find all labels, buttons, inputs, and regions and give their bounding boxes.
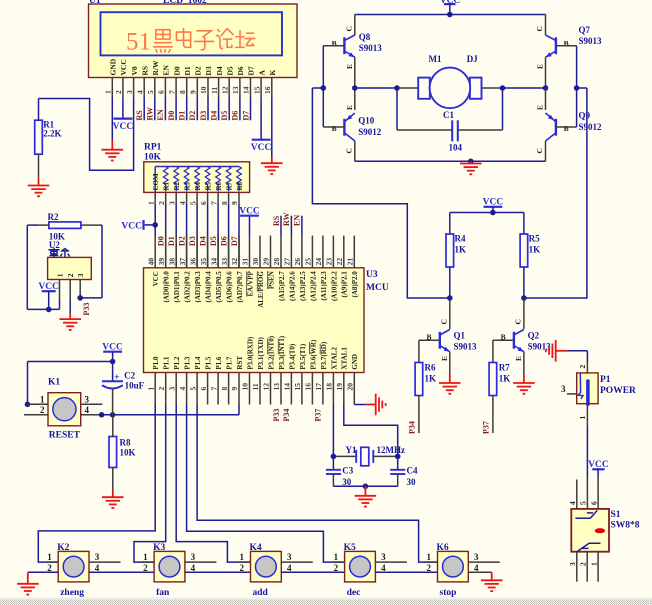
svg-text:Q1: Q1	[454, 330, 466, 340]
right base bus Q7/Q9	[576, 46, 578, 127]
svg-text:P37: P37	[481, 421, 490, 434]
svg-text:36: 36	[188, 258, 197, 266]
svg-text:(A13)P2.5: (A13)P2.5	[299, 271, 307, 301]
junction right base bus	[574, 85, 580, 91]
transistor Q10 S9012 (PNP bottom-left)	[354, 88, 356, 110]
wire MCU pin31 EA to VCC	[249, 216, 251, 236]
svg-text:4: 4	[287, 563, 292, 573]
junction VCC/hall rail	[46, 307, 52, 313]
svg-text:S1: S1	[611, 510, 621, 520]
P1 pin2 stub	[586, 362, 588, 373]
svg-text:D0: D0	[172, 66, 181, 75]
svg-text:P37: P37	[314, 409, 323, 422]
svg-text:E: E	[345, 64, 354, 69]
svg-text:P3.0(RXD): P3.0(RXD)	[246, 336, 254, 370]
svg-text:fan: fan	[156, 588, 170, 598]
svg-text:7: 7	[209, 387, 218, 391]
VCC port above R4 R5	[484, 206, 503, 208]
svg-text:SW8*8: SW8*8	[611, 521, 640, 531]
wire R2 right riser down to hall pin3	[101, 225, 103, 298]
svg-text:B: B	[564, 39, 569, 48]
svg-text:D6: D6	[236, 66, 245, 75]
S1 inner switch symbols	[575, 510, 597, 518]
svg-text:7: 7	[167, 90, 176, 94]
svg-text:1K: 1K	[499, 373, 511, 383]
svg-text:2: 2	[334, 563, 339, 573]
drive wire from left bus to Q1 collector	[312, 88, 449, 298]
K1 pin4 lead to RST line	[81, 414, 100, 416]
svg-text:11: 11	[210, 87, 219, 94]
svg-text:R7: R7	[226, 181, 234, 190]
wire P1.2 to K4	[176, 405, 250, 563]
svg-text:P1.7: P1.7	[226, 356, 234, 370]
svg-text:10: 10	[241, 383, 250, 391]
svg-text:(AD0)P0.0: (AD0)P0.0	[163, 271, 171, 303]
svg-text:D5: D5	[209, 236, 218, 246]
svg-text:6: 6	[589, 501, 598, 505]
RP1 zigzag resistors R1-R8	[163, 167, 168, 192]
K1 pin2 stub	[24, 414, 48, 416]
wire hall pin1 to VCC rail	[59, 300, 61, 310]
wire R8 top lead	[112, 415, 114, 437]
svg-text:B: B	[332, 39, 337, 48]
svg-text:30: 30	[251, 258, 260, 266]
ground at LCD pin16	[261, 158, 283, 174]
svg-text:21: 21	[346, 258, 355, 266]
svg-text:2: 2	[114, 90, 123, 94]
svg-text:38: 38	[167, 258, 176, 266]
svg-text:R/W: R/W	[151, 60, 160, 76]
K6 pin4 wire to ground	[468, 571, 491, 573]
resistor R1 2.2K	[35, 120, 43, 154]
wire R7 bottom net stub	[492, 396, 494, 434]
button bus segment	[281, 571, 344, 573]
ground below crystal	[355, 486, 377, 506]
svg-text:VCC: VCC	[38, 282, 59, 292]
svg-text:RST: RST	[236, 356, 244, 370]
svg-text:add: add	[253, 588, 269, 598]
svg-text:4: 4	[381, 563, 386, 573]
svg-text:D1: D1	[183, 66, 192, 75]
svg-text:2: 2	[427, 563, 432, 573]
svg-text:P33: P33	[82, 303, 91, 316]
svg-text:XTAL2: XTAL2	[330, 347, 338, 370]
junction VCC at pin40 column	[152, 222, 158, 228]
wire right bus tap	[577, 87, 587, 89]
svg-text:RP1: RP1	[144, 143, 162, 153]
RP1 common rail inside	[155, 166, 239, 168]
svg-text:1: 1	[334, 552, 339, 562]
svg-text:P1.6: P1.6	[215, 356, 223, 370]
svg-text:C: C	[535, 148, 544, 153]
junction bottom rail ground	[468, 159, 474, 165]
svg-text:D2: D2	[194, 66, 203, 75]
svg-text:2: 2	[157, 201, 166, 205]
junction right motor node	[543, 85, 549, 91]
wire Q8 base	[323, 45, 344, 47]
S1 pin4 stub	[576, 480, 578, 509]
svg-text:RW: RW	[146, 107, 155, 121]
svg-text:EN: EN	[156, 109, 165, 120]
svg-text:RESET: RESET	[49, 430, 81, 440]
resistor R4 1K	[449, 213, 451, 235]
svg-text:VCC: VCC	[121, 221, 142, 231]
svg-text:(A11)P2.3: (A11)P2.3	[320, 271, 328, 301]
svg-text:C2: C2	[124, 370, 135, 380]
svg-text:13: 13	[231, 86, 240, 94]
svg-text:1: 1	[104, 90, 113, 94]
button bus segment	[89, 571, 154, 573]
wires RS RW EN stubs above MCU	[280, 216, 282, 236]
svg-text:8: 8	[220, 387, 229, 391]
S1 bottom pin stubs	[576, 552, 578, 582]
svg-text:VCC: VCC	[119, 59, 128, 75]
svg-text:D4: D4	[209, 111, 218, 121]
svg-text:XTAL1: XTAL1	[341, 347, 349, 370]
svg-text:(A8)P2.0: (A8)P2.0	[351, 271, 359, 298]
svg-text:(A10)P2.2: (A10)P2.2	[330, 271, 338, 301]
svg-text:3: 3	[381, 552, 386, 562]
svg-text:B: B	[564, 124, 569, 133]
svg-text:S9013: S9013	[454, 341, 478, 351]
svg-text:E: E	[440, 356, 449, 361]
svg-text:34: 34	[209, 258, 218, 266]
svg-text:23: 23	[325, 258, 334, 266]
svg-text:13: 13	[272, 383, 281, 391]
RP1 COM vertical	[154, 167, 156, 193]
wire motor right bracket to node	[482, 87, 503, 89]
svg-text:C: C	[344, 26, 353, 31]
svg-text:D7: D7	[247, 66, 256, 75]
svg-text:D6: D6	[231, 111, 240, 121]
wire VCC rail to hall	[27, 308, 59, 310]
svg-text:Q8: Q8	[359, 32, 371, 42]
MCU top pin stubs	[154, 236, 156, 268]
svg-text:31: 31	[241, 258, 250, 266]
svg-text:3: 3	[568, 562, 577, 566]
svg-text:zheng: zheng	[60, 588, 84, 598]
K3 pin3 stub	[185, 561, 217, 563]
svg-text:POWER: POWER	[600, 386, 636, 396]
svg-text:P34: P34	[282, 409, 291, 422]
svg-text:S9012: S9012	[358, 127, 382, 137]
svg-text:P3.1(TXD): P3.1(TXD)	[257, 336, 265, 369]
svg-text:GND: GND	[109, 58, 118, 75]
wire VCC stem to rail	[48, 291, 50, 309]
svg-text:P3.4(T0): P3.4(T0)	[288, 343, 296, 370]
hall sensor U2 chinese name HuoEr	[49, 249, 59, 258]
resistor R5 1K	[523, 213, 525, 235]
svg-text:P33: P33	[272, 409, 281, 422]
svg-text:C: C	[514, 319, 523, 324]
junction Q2 collector node	[521, 295, 527, 301]
K1 pin3 stub	[81, 403, 103, 405]
wire LCD pin2 to VCC	[122, 98, 124, 119]
svg-text:4: 4	[178, 201, 187, 205]
wire C2 bottom to RST junction	[112, 389, 114, 415]
Q1 emitter stub	[449, 352, 451, 374]
svg-text:RS: RS	[272, 215, 281, 226]
svg-text:10uF: 10uF	[125, 380, 145, 390]
svg-text:1: 1	[589, 562, 598, 566]
crystal bottom rail	[333, 485, 397, 487]
wire R6 bottom net stub	[418, 396, 420, 434]
svg-text:P1.3: P1.3	[184, 356, 192, 370]
svg-text:U2: U2	[49, 240, 60, 250]
svg-text:27: 27	[283, 258, 292, 266]
resistor R6 1K	[418, 340, 420, 362]
svg-text:C4: C4	[407, 465, 418, 475]
svg-text:17: 17	[314, 383, 323, 391]
svg-text:11: 11	[251, 383, 260, 390]
svg-text:LCD_1602: LCD_1602	[163, 0, 207, 6]
svg-text:16: 16	[304, 383, 313, 391]
svg-text:R8: R8	[236, 181, 244, 190]
svg-text:(A9)P2.1: (A9)P2.1	[341, 271, 349, 298]
svg-text:S9012: S9012	[579, 122, 603, 132]
svg-text:RW: RW	[282, 213, 291, 227]
svg-text:P1: P1	[600, 375, 611, 385]
svg-text:PSEN: PSEN	[267, 271, 275, 289]
svg-text:E: E	[536, 105, 545, 110]
svg-text:D2: D2	[177, 236, 186, 246]
transistor Q7 S9013 (NPN top-right)	[545, 15, 547, 36]
svg-text:16: 16	[263, 86, 272, 94]
svg-text:12MHz: 12MHz	[377, 445, 406, 455]
svg-text:9: 9	[230, 201, 239, 205]
svg-text:ALE/PROG: ALE/PROG	[257, 271, 265, 308]
wire base bus tap to drive line	[312, 87, 323, 89]
svg-text:R4: R4	[455, 234, 466, 244]
svg-text:EA/VPP: EA/VPP	[246, 270, 254, 296]
svg-text:19: 19	[335, 383, 344, 391]
svg-text:3: 3	[167, 201, 176, 205]
ground below R1	[28, 177, 50, 196]
svg-text:S9013: S9013	[528, 341, 552, 351]
svg-text:26: 26	[293, 258, 302, 266]
svg-text:U1: U1	[89, 0, 101, 6]
svg-text:3: 3	[125, 90, 134, 94]
wire P1.3 to K5	[187, 405, 345, 563]
Q2 emitter stub	[523, 352, 525, 374]
svg-text:VCC: VCC	[152, 271, 160, 286]
svg-text:14: 14	[242, 86, 251, 94]
svg-text:P1.2: P1.2	[173, 356, 181, 370]
wire LCD pin15 A to VCC	[260, 98, 262, 140]
svg-text:(AD5)P0.5: (AD5)P0.5	[215, 271, 223, 303]
svg-text:4: 4	[568, 501, 577, 505]
svg-text:U3: U3	[366, 270, 378, 280]
wire to motor left bracket	[397, 87, 418, 89]
H-bridge top rail	[355, 14, 546, 16]
wire left motor node to C1 riser	[355, 87, 397, 89]
svg-text:1: 1	[578, 416, 587, 420]
svg-text:1K: 1K	[425, 373, 437, 383]
K5 pin1 lead (black near box)	[333, 561, 345, 563]
svg-text:3: 3	[287, 552, 292, 562]
svg-text:D5: D5	[225, 66, 234, 75]
svg-text:D5: D5	[220, 111, 229, 121]
svg-text:6: 6	[157, 90, 166, 94]
wire MCU pin18 XTAL2 down	[332, 405, 334, 457]
power connector P1 body	[577, 373, 598, 404]
svg-text:D6: D6	[219, 236, 228, 246]
VCC port at LCD pin15	[252, 139, 271, 141]
svg-text:28: 28	[272, 258, 281, 266]
svg-text:P3.5(T1): P3.5(T1)	[299, 343, 307, 370]
wire hall pin3 to R2	[80, 297, 102, 299]
capacitor C2 10uF electrolytic	[112, 362, 114, 382]
svg-text:(A14)P2.6: (A14)P2.6	[288, 271, 296, 301]
LCD inner screen rectangle	[101, 12, 283, 55]
svg-text:1: 1	[56, 273, 65, 277]
svg-text:S9013: S9013	[579, 36, 603, 46]
wire LCD pin1 GND down	[111, 98, 113, 140]
wire VCC to junction	[112, 352, 114, 362]
VCC port above K1/C2	[103, 351, 122, 353]
svg-text:3: 3	[76, 273, 85, 277]
wire MCU pin19 XTAL1 to crystal right node	[344, 405, 398, 457]
svg-text:2: 2	[578, 562, 587, 566]
svg-text:12: 12	[262, 383, 271, 391]
wire Q1 base to R6	[419, 339, 440, 341]
svg-text:D3: D3	[204, 66, 213, 75]
svg-text:C: C	[440, 319, 449, 324]
junction crystal left	[331, 454, 337, 460]
svg-text:1K: 1K	[529, 245, 541, 255]
svg-text:EN: EN	[162, 64, 171, 75]
svg-text:P1.0: P1.0	[152, 356, 160, 370]
svg-text:R2: R2	[173, 181, 181, 190]
button bus segment	[185, 571, 251, 573]
svg-text:M1: M1	[429, 54, 442, 64]
svg-text:33: 33	[220, 258, 229, 266]
push button K1 body	[48, 393, 81, 426]
wire P1.4 to K6	[197, 405, 437, 563]
svg-text:4: 4	[135, 90, 144, 94]
wire Q9 base	[556, 126, 577, 128]
svg-text:D4: D4	[198, 236, 207, 246]
svg-text:15: 15	[293, 383, 302, 391]
svg-text:D7: D7	[241, 111, 250, 121]
svg-text:D3: D3	[188, 236, 197, 246]
svg-text:P1.5: P1.5	[205, 356, 213, 370]
K5 pin3 stub	[375, 561, 407, 563]
resistor R7 1K	[492, 340, 494, 362]
H-bridge bottom rail	[355, 160, 546, 162]
svg-text:1: 1	[240, 552, 245, 562]
wire Q2 base to R7	[493, 339, 514, 341]
svg-text:D3: D3	[199, 111, 208, 121]
svg-text:3: 3	[191, 552, 196, 562]
wire LCD pin16 K down	[271, 98, 273, 158]
junction crystal right	[395, 454, 401, 460]
rotated ground near Q2/P1	[546, 340, 567, 362]
R4/R5 top rail	[450, 212, 524, 214]
wire R1 bottom lead	[38, 154, 40, 177]
svg-text:RS: RS	[140, 66, 149, 76]
svg-text:2: 2	[157, 387, 166, 391]
svg-text:R6: R6	[425, 362, 436, 372]
svg-text:(AD7)P0.7: (AD7)P0.7	[236, 271, 244, 303]
svg-text:2: 2	[47, 563, 52, 573]
ground at K6 pin4	[481, 572, 503, 591]
wire crystal right lead	[373, 455, 397, 457]
MCU bottom pin stubs	[154, 373, 156, 405]
svg-text:RS: RS	[135, 110, 144, 121]
resistor R8 10K	[109, 437, 117, 468]
wire LCD pin3 V0 to R1 (down, left, up path)	[39, 98, 134, 170]
svg-text:1: 1	[47, 552, 52, 562]
svg-text:6: 6	[199, 387, 208, 391]
svg-text:25: 25	[304, 258, 313, 266]
svg-text:R4: R4	[194, 181, 202, 190]
svg-text:104: 104	[449, 142, 463, 152]
MCU U3 body	[144, 268, 365, 373]
svg-text:10: 10	[199, 86, 208, 94]
svg-text:D7: D7	[230, 236, 239, 246]
svg-text:20: 20	[346, 383, 355, 391]
svg-text:18: 18	[325, 383, 334, 391]
svg-text:10K: 10K	[144, 153, 162, 163]
Q8 emitter stub	[354, 57, 356, 85]
svg-text:P3.3(INT1): P3.3(INT1)	[278, 335, 286, 369]
drive wire from right bus to Q2 collector	[524, 88, 587, 298]
svg-text:15: 15	[252, 86, 261, 94]
svg-text:2: 2	[66, 273, 75, 277]
svg-text:8: 8	[178, 90, 187, 94]
svg-text:37: 37	[178, 258, 187, 266]
junction Q1 collector node	[447, 295, 453, 301]
svg-text:(AD2)P0.2: (AD2)P0.2	[184, 271, 192, 303]
K2 pin3 stub	[89, 561, 121, 563]
LCD module U1 LCD_1602 body	[89, 4, 298, 78]
svg-text:GND: GND	[351, 354, 359, 370]
junction VCC rail	[490, 210, 496, 216]
svg-text:2: 2	[240, 563, 245, 573]
svg-text:40: 40	[146, 258, 155, 266]
svg-text:R5: R5	[205, 181, 213, 190]
svg-text:1K: 1K	[455, 245, 467, 255]
ground at LCD pin1	[102, 140, 124, 160]
LCD pin stubs 1-16	[111, 78, 113, 99]
wire R1 top lead	[38, 99, 40, 121]
svg-text:2: 2	[578, 365, 587, 369]
wire hall pin2 to ground	[69, 301, 71, 313]
svg-text:+: +	[114, 373, 119, 383]
VCC port at LCD pin2	[114, 117, 133, 119]
ground below R8	[102, 491, 124, 509]
VCC port sideways at pin40	[145, 224, 156, 226]
resistor R2 body	[49, 222, 81, 229]
wire R8 bottom lead	[112, 468, 114, 491]
wire K1 pin1 riser	[27, 362, 29, 405]
VCC port at EA pin31	[240, 215, 259, 217]
svg-text:1: 1	[143, 552, 148, 562]
svg-text:24: 24	[314, 258, 323, 266]
svg-text:stop: stop	[440, 588, 457, 598]
svg-text:P3.6(WR): P3.6(WR)	[309, 339, 317, 369]
junction left base bus	[321, 85, 327, 91]
wire Q7 base	[556, 45, 577, 47]
LCD title hanzi: black/electronics-forum characters (orange)	[154, 30, 173, 52]
svg-text:5: 5	[188, 387, 197, 391]
svg-text:1: 1	[146, 201, 155, 205]
svg-text:6: 6	[199, 201, 208, 205]
svg-text:VCC: VCC	[251, 143, 272, 153]
svg-text:R6: R6	[215, 181, 223, 190]
svg-text:5: 5	[188, 201, 197, 205]
